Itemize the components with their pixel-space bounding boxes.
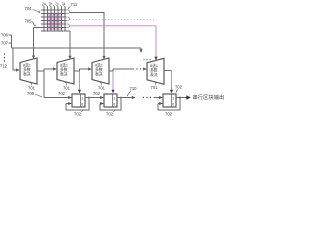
mux U1 (majority voter) bbox=[20, 58, 37, 84]
svg-text:701: 701 bbox=[63, 86, 71, 91]
wire: matrix row out right to mux U2 top bbox=[66, 31, 70, 59]
wire: FF3 feedback into left input bbox=[158, 103, 162, 105]
wire: FF1 feedback into left input bbox=[66, 103, 71, 105]
svg-text:7a: 7a bbox=[42, 2, 46, 6]
svg-text:0: 0 bbox=[81, 103, 83, 107]
crossbar column top hooks bbox=[42, 5, 65, 7]
svg-text:8选1: 8选1 bbox=[23, 63, 31, 68]
wire: magenta rail from bracket3 to mux U4 top bbox=[70, 25, 156, 27]
svg-text:704: 704 bbox=[25, 6, 33, 11]
svg-text:表决: 表决 bbox=[23, 72, 31, 77]
wire: long horizontal rail feeding mux tops bbox=[12, 47, 142, 49]
svg-text:表决: 表决 bbox=[150, 72, 158, 77]
svg-text:709: 709 bbox=[27, 91, 35, 96]
wire: FF2 feedback into left input bbox=[100, 103, 103, 105]
crossbar center highlight verticals bbox=[50, 14, 57, 30]
wire: FF2 output rightward bbox=[117, 97, 135, 99]
svg-text:7d: 7d bbox=[62, 2, 66, 6]
wire: matrix row out left to mux U1 top bbox=[34, 28, 42, 59]
mux U4 bbox=[147, 58, 164, 84]
node: FF3 output junction bbox=[179, 97, 181, 99]
leader for U4 label bbox=[154, 82, 157, 85]
svg-text:701: 701 bbox=[28, 86, 36, 91]
svg-text:多数: 多数 bbox=[150, 67, 158, 72]
svg-text:711: 711 bbox=[71, 2, 78, 7]
leader 710 bbox=[127, 91, 131, 96]
merge bracket 1 (rows 10,13.5) bbox=[66, 10, 70, 14]
svg-text:705: 705 bbox=[25, 19, 33, 24]
merge bracket 3 (rows 24,27.5) bbox=[66, 24, 70, 28]
wire: U1 output stub and branches bbox=[37, 69, 51, 98]
mux U2 bbox=[57, 58, 74, 84]
wire: U1 out down to FF1 left input bbox=[44, 97, 71, 99]
wire: FF1 output to FF2 bbox=[85, 97, 103, 99]
svg-text:701: 701 bbox=[98, 86, 106, 91]
wire from 706 to rail bbox=[9, 34, 12, 36]
crossbar row lines bbox=[41, 10, 66, 31]
leader 709 bbox=[35, 94, 42, 97]
wire: U2 output stub and branch up bbox=[74, 69, 87, 71]
wire: U4 out down to FF3 top bbox=[171, 71, 173, 93]
svg-text:表决: 表决 bbox=[95, 72, 103, 77]
wire: dotted magenta rail from bracket2 bbox=[70, 19, 156, 21]
svg-text:串行区块输出: 串行区块输出 bbox=[193, 93, 225, 101]
svg-text:702: 702 bbox=[74, 112, 82, 117]
flip-flop FF3 bbox=[163, 94, 176, 107]
svg-text:7b: 7b bbox=[49, 2, 53, 6]
leader FF3 label bbox=[176, 90, 178, 93]
leader for 711 bbox=[68, 7, 71, 10]
crossbar center highlight patch bbox=[47, 13, 62, 31]
arrowhead serial out bbox=[186, 95, 191, 99]
wire: U2 out down to FF1 top bbox=[79, 71, 81, 93]
crossbar column bottom arrowheads bbox=[43, 30, 66, 32]
svg-text:多数: 多数 bbox=[23, 67, 31, 72]
svg-text:表决: 表决 bbox=[60, 72, 68, 77]
wire: U4 output stub bbox=[164, 70, 172, 72]
svg-text:1: 1 bbox=[81, 97, 83, 101]
wire: into mux U4 left input bbox=[144, 68, 147, 70]
svg-text:8选1: 8选1 bbox=[150, 63, 158, 68]
wire: rail end drop with arrow bbox=[140, 48, 142, 52]
svg-text:8选1: 8选1 bbox=[95, 63, 103, 68]
FF1 feedback loop bbox=[66, 98, 89, 111]
FF2 feedback loop bbox=[100, 98, 121, 111]
wire: vertical joining 706/707 into rail bbox=[11, 35, 13, 48]
wire: FF3 output to serial out bbox=[176, 97, 187, 99]
wire: into FF3 left input bbox=[154, 97, 163, 99]
wire: U3 output stub and branch up bbox=[109, 69, 134, 71]
svg-text:多数: 多数 bbox=[60, 67, 68, 72]
leader for U2 label bbox=[65, 82, 66, 86]
crossbar matrix column lines (bus 708) bbox=[44, 7, 65, 31]
wire: U1 out to mux U2 left input bbox=[51, 68, 57, 70]
svg-text:702: 702 bbox=[58, 91, 66, 96]
mux U3 bbox=[92, 58, 109, 84]
svg-text:1: 1 bbox=[113, 97, 115, 101]
wire from 707 to rail bbox=[9, 42, 12, 44]
svg-text:多数: 多数 bbox=[95, 67, 103, 72]
node: FF1 output junction bbox=[88, 97, 90, 99]
crossbar row left arrowheads bbox=[41, 9, 43, 32]
leader for U3 label bbox=[100, 82, 101, 86]
ellipsis between U3 and U4 bbox=[136, 68, 144, 69]
vertical ellipsis left inputs bbox=[4, 53, 5, 61]
svg-text:706: 706 bbox=[1, 33, 9, 38]
leader FF1 label bbox=[81, 110, 83, 111]
leader for 705 bbox=[33, 22, 37, 27]
svg-text:701: 701 bbox=[151, 85, 159, 90]
ellipsis between FF2 and FF3 bbox=[143, 97, 151, 98]
svg-text:0: 0 bbox=[113, 103, 115, 107]
leader for 704 bbox=[33, 10, 41, 13]
merge bracket 2 (rows 17,20.5) bbox=[66, 17, 70, 21]
flip-flop FF1 bbox=[72, 94, 85, 107]
node: FF2 output junction bbox=[120, 97, 122, 99]
svg-text:702: 702 bbox=[93, 91, 101, 96]
svg-text:707: 707 bbox=[1, 41, 9, 46]
svg-text:710: 710 bbox=[130, 86, 138, 91]
svg-text:1: 1 bbox=[172, 97, 174, 101]
wire: U3 out down to FF2 top bbox=[112, 71, 114, 93]
svg-text:702: 702 bbox=[165, 112, 173, 117]
svg-text:7c: 7c bbox=[55, 2, 59, 6]
wire: gray rail from bracket1 to mux U3 top bbox=[70, 13, 104, 60]
FF3 feedback loop bbox=[158, 98, 180, 111]
leader for U1 label bbox=[30, 82, 31, 86]
svg-text:0: 0 bbox=[172, 103, 174, 107]
svg-text:702: 702 bbox=[106, 112, 114, 117]
ellipsis after rail end bbox=[143, 59, 150, 60]
svg-text:8选1: 8选1 bbox=[60, 63, 68, 68]
flip-flop FF2 bbox=[104, 94, 117, 107]
wire: U2 out to mux U3 left input bbox=[87, 68, 91, 70]
leader FF2 label bbox=[113, 110, 115, 111]
svg-text:702: 702 bbox=[175, 85, 183, 90]
wire: tap from rail down to mux U1 left input bbox=[13, 48, 19, 70]
svg-text:712: 712 bbox=[0, 64, 8, 69]
